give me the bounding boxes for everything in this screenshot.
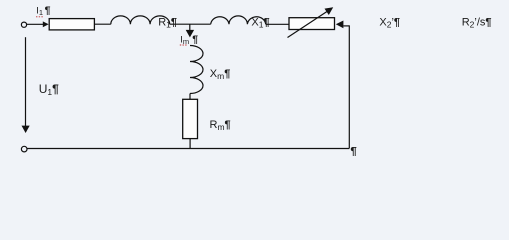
voltage arrow U1: [25, 37, 27, 126]
wire (coil2 to variable box): [266, 23, 289, 25]
current arrow I1: [43, 21, 49, 27]
right vertical wire: [348, 25, 350, 148]
terminal (input bottom): [21, 146, 27, 152]
svg-text:¶: ¶: [350, 146, 357, 156]
node junction magnetizing branch: [189, 24, 191, 31]
resistor R1 (box): [49, 19, 94, 30]
wire (coil Xm to Rm box): [189, 94, 191, 100]
resistor Rm (box): [183, 99, 198, 138]
wire (R1 to coil X1a): [94, 23, 110, 25]
svg-text:R2’/s¶: R2’/s¶: [462, 16, 492, 29]
wire (coil to junction to coil2): [170, 23, 211, 25]
variable rotor impedance box: [289, 18, 335, 30]
terminal (input top): [21, 22, 26, 27]
wire (Rm box to bottom wire): [189, 139, 191, 149]
spellcheck squiggle under I1: [36, 16, 43, 18]
current arrow into box (pointing left): [336, 21, 344, 29]
current arrow Im: [186, 30, 194, 38]
inductor coil 2 (rotor side): [211, 16, 266, 24]
bottom wire: [27, 148, 349, 150]
inductor coil (stator leakage): [111, 16, 170, 24]
wire (terminal to arrow): [27, 23, 43, 25]
magnetizing coil Xm: [190, 46, 203, 94]
wire (arrow tail to right corner): [343, 25, 349, 27]
variable diagonal arrow: [288, 11, 329, 38]
spellcheck squiggle under Im: [180, 44, 187, 46]
